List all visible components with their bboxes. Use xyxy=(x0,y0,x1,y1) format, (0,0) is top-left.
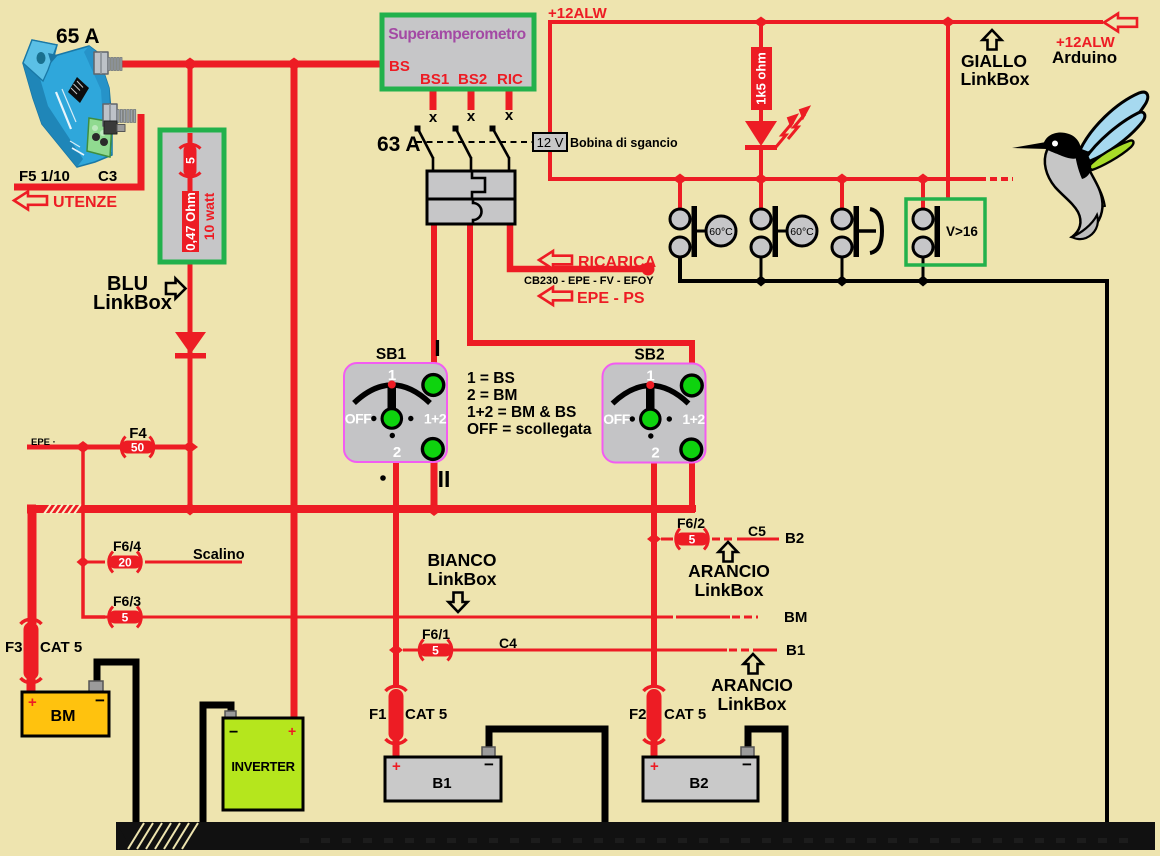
svg-text:B2: B2 xyxy=(689,775,708,792)
svg-text:−: − xyxy=(229,724,238,741)
svg-text:2 = BM: 2 = BM xyxy=(467,387,517,404)
svg-text:+: + xyxy=(288,723,296,739)
svg-text:5: 5 xyxy=(122,611,129,625)
svg-text:INVERTER: INVERTER xyxy=(231,759,295,774)
svg-text:2: 2 xyxy=(393,444,401,461)
svg-text:CB230 - EPE - FV - EFOY: CB230 - EPE - FV - EFOY xyxy=(524,275,654,287)
svg-text:II: II xyxy=(438,466,451,492)
svg-text:C5: C5 xyxy=(748,523,766,539)
svg-text:F6/2: F6/2 xyxy=(677,515,705,531)
svg-text:Scalino: Scalino xyxy=(193,547,245,563)
svg-text:B1: B1 xyxy=(786,642,805,659)
svg-text:0,47 Ohm: 0,47 Ohm xyxy=(183,192,198,251)
svg-text:LinkBox: LinkBox xyxy=(93,292,172,314)
svg-text:1+2 = BM & BS: 1+2 = BM & BS xyxy=(467,404,576,421)
svg-text:−: − xyxy=(742,755,752,774)
svg-text:BS1: BS1 xyxy=(420,71,449,88)
svg-text:2: 2 xyxy=(651,445,659,462)
svg-text:OFF = scollegata: OFF = scollegata xyxy=(467,421,592,438)
svg-text:ARANCIO: ARANCIO xyxy=(711,675,793,695)
svg-text:BS2: BS2 xyxy=(458,71,487,88)
svg-text:F4: F4 xyxy=(129,425,147,442)
svg-text:5: 5 xyxy=(184,157,198,164)
svg-text:RICARICA: RICARICA xyxy=(578,254,657,271)
svg-text:Superamperometro: Superamperometro xyxy=(388,26,525,43)
svg-text:60°C: 60°C xyxy=(709,226,733,238)
svg-text:F5 1/10: F5 1/10 xyxy=(19,168,70,185)
svg-text:LinkBox: LinkBox xyxy=(694,580,763,600)
svg-text:EPE ·: EPE · xyxy=(31,437,56,448)
svg-text:5: 5 xyxy=(432,644,439,658)
svg-text:1: 1 xyxy=(388,367,396,384)
svg-text:CAT 5: CAT 5 xyxy=(664,706,706,723)
svg-text:F2: F2 xyxy=(629,706,647,723)
svg-text:BIANCO: BIANCO xyxy=(427,550,496,570)
svg-text:1 = BS: 1 = BS xyxy=(467,370,515,387)
svg-text:LinkBox: LinkBox xyxy=(427,569,496,589)
svg-text:OFF: OFF xyxy=(345,411,372,427)
svg-text:x: x xyxy=(429,109,438,126)
svg-text:−: − xyxy=(95,691,105,710)
svg-text:LinkBox: LinkBox xyxy=(717,694,786,714)
svg-text:63 A: 63 A xyxy=(377,133,421,156)
svg-text:5: 5 xyxy=(689,533,696,547)
svg-text:60°C: 60°C xyxy=(790,226,814,238)
svg-text:−: − xyxy=(484,755,494,774)
svg-text:F3: F3 xyxy=(5,639,23,656)
svg-text:SB1: SB1 xyxy=(376,346,407,363)
svg-text:F1: F1 xyxy=(369,706,387,723)
svg-text:+: + xyxy=(392,758,401,775)
svg-text:SB2: SB2 xyxy=(634,347,664,364)
svg-text:12 V: 12 V xyxy=(537,135,564,150)
svg-text:ARANCIO: ARANCIO xyxy=(688,561,770,581)
svg-text:+: + xyxy=(28,694,37,711)
svg-text:EPE - PS: EPE - PS xyxy=(577,290,645,307)
svg-text:BS: BS xyxy=(389,58,410,75)
svg-text:10 watt: 10 watt xyxy=(201,192,217,240)
svg-text:1+2: 1+2 xyxy=(424,411,447,427)
svg-text:RIC: RIC xyxy=(497,71,523,88)
svg-text:F6/1: F6/1 xyxy=(422,626,450,642)
svg-text:C3: C3 xyxy=(98,168,117,185)
svg-text:65 A: 65 A xyxy=(56,25,100,48)
svg-text:Bobina di sgancio: Bobina di sgancio xyxy=(570,136,678,150)
svg-text:50: 50 xyxy=(131,441,145,455)
svg-text:x: x xyxy=(467,108,476,125)
svg-text:20: 20 xyxy=(118,556,132,570)
svg-text:+12ALW: +12ALW xyxy=(548,5,608,22)
svg-text:1k5 ohm: 1k5 ohm xyxy=(754,52,769,105)
svg-text:+: + xyxy=(650,758,659,775)
svg-text:I: I xyxy=(434,335,440,361)
svg-text:C4: C4 xyxy=(499,635,517,651)
svg-text:1: 1 xyxy=(646,368,654,385)
svg-text:BM: BM xyxy=(784,609,807,626)
svg-text:1+2: 1+2 xyxy=(682,411,705,427)
svg-text:Arduino: Arduino xyxy=(1052,48,1117,67)
svg-text:B1: B1 xyxy=(432,775,451,792)
svg-text:GIALLO: GIALLO xyxy=(961,51,1027,71)
svg-text:UTENZE: UTENZE xyxy=(53,194,117,211)
svg-text:CAT 5: CAT 5 xyxy=(405,706,447,723)
svg-text:BM: BM xyxy=(51,708,76,725)
svg-text:CAT 5: CAT 5 xyxy=(40,639,82,656)
svg-text:V>16: V>16 xyxy=(946,224,978,239)
svg-text:LinkBox: LinkBox xyxy=(960,69,1029,89)
svg-text:B2: B2 xyxy=(785,530,804,547)
svg-text:x: x xyxy=(505,107,514,124)
svg-text:OFF: OFF xyxy=(603,411,630,427)
